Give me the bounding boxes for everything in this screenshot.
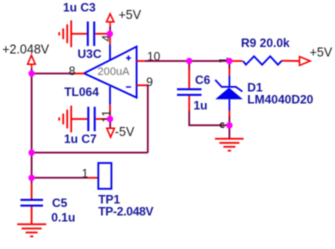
svg-text:1u: 1u bbox=[194, 98, 208, 112]
svg-text:LM4040D20: LM4040D20 bbox=[247, 93, 313, 107]
test point TP1 body bbox=[98, 163, 111, 189]
wire pin 11 to -5V junction bbox=[109, 105, 111, 119]
wire +5V junction down to op-amp pin 4 bbox=[109, 34, 111, 45]
capacitor C6 bbox=[177, 89, 202, 95]
svg-text:1u C7: 1u C7 bbox=[64, 132, 97, 146]
svg-text:-5V: -5V bbox=[115, 125, 135, 139]
power symbol +2.048V bbox=[28, 55, 36, 68]
op-amp pin 9 stub bbox=[137, 84, 148, 86]
wire stem +2.048V to junction bbox=[31, 68, 33, 73]
power port arrow +5V (right) bbox=[300, 57, 311, 66]
op-amp U3C triangle bbox=[84, 47, 137, 98]
capacitor C5 bbox=[20, 200, 43, 206]
capacitor C7 bbox=[88, 107, 94, 131]
test point TP1 pin stub bbox=[88, 177, 99, 179]
ground (sideways) for C7 bbox=[59, 106, 87, 133]
wire C7 to -5V junction bbox=[96, 118, 110, 120]
op-amp pin 11 stub bbox=[109, 87, 111, 105]
resistor R9 lead left bbox=[231, 60, 243, 62]
svg-text:8: 8 bbox=[69, 64, 76, 78]
svg-text:200uA: 200uA bbox=[98, 66, 131, 78]
wire feedback horizontal y=152.6 bbox=[32, 152, 148, 154]
wire D1 bottom to junction bbox=[228, 116, 230, 125]
diode D1 bottom pin bbox=[228, 111, 230, 117]
wire C6 branch down from junction bbox=[188, 61, 190, 70]
svg-text:1u C3: 1u C3 bbox=[63, 1, 96, 15]
svg-text:C6: C6 bbox=[195, 73, 211, 87]
wire left rail vertical bbox=[31, 74, 33, 184]
op-amp minus mark bbox=[126, 86, 131, 88]
junction dot D1 / C6 / ground bbox=[226, 122, 232, 128]
op-amp pin 10 stub bbox=[137, 60, 145, 62]
pin number 2 of D1 (circle mark) bbox=[220, 123, 224, 127]
diode D1 LM4040 (zener) bbox=[215, 75, 242, 110]
power symbol +5V (top) bbox=[107, 14, 114, 27]
svg-text:U3C: U3C bbox=[78, 47, 102, 61]
wire stem to ground (D1/C6) bbox=[228, 125, 230, 139]
junction dot +5V / C3 / pin4 bbox=[107, 31, 113, 37]
wire to TP1 y=177.8 bbox=[32, 177, 88, 179]
ground below D1/C6 bbox=[215, 139, 244, 151]
capacitor C3 bbox=[88, 22, 94, 47]
op-amp pin 8 stub bbox=[75, 73, 85, 75]
diode D1 top pin bbox=[228, 69, 230, 76]
junction dot output / C6 bbox=[186, 58, 192, 64]
junction dot feedback tap bbox=[28, 149, 34, 155]
ground below C5 bbox=[17, 224, 46, 236]
svg-text:R9 20.0k: R9 20.0k bbox=[241, 36, 290, 50]
wire D1 branch from top junction bbox=[228, 61, 230, 69]
svg-text:TL064: TL064 bbox=[64, 85, 99, 99]
svg-text:TP-2.048V: TP-2.048V bbox=[98, 205, 153, 219]
svg-text:0.1u: 0.1u bbox=[51, 210, 75, 224]
wire feedback vertical x=147.8 bbox=[147, 85, 149, 152]
wire C6 bottom corner bbox=[189, 111, 229, 125]
power symbol -5V triangle bbox=[107, 128, 115, 137]
svg-text:+5V: +5V bbox=[310, 45, 333, 59]
junction dot -5V / C7 / pin11 bbox=[107, 116, 113, 122]
wire net +2.048V horizontal to pin 8 bbox=[32, 73, 75, 75]
junction dot output / D1 / R9 bbox=[226, 58, 232, 64]
op-amp plus mark bbox=[126, 56, 131, 61]
svg-text:+5V: +5V bbox=[119, 8, 142, 22]
wire stem junction to -5V bbox=[109, 119, 111, 128]
svg-text:+2.048V: +2.048V bbox=[2, 42, 50, 56]
wire op-amp output top y=61 bbox=[144, 60, 230, 62]
svg-text:9: 9 bbox=[146, 75, 153, 89]
resistor R9 lead right bbox=[282, 60, 300, 62]
capacitor C6 bottom pin bbox=[188, 96, 190, 111]
svg-text:1: 1 bbox=[82, 167, 89, 181]
capacitor C5 bottom pin bbox=[31, 207, 33, 225]
wire stem +5V to junction bbox=[109, 27, 111, 34]
resistor R9 bbox=[243, 56, 282, 64]
junction dot TP tap bbox=[28, 175, 34, 181]
ground (sideways) for C3 bbox=[59, 20, 87, 47]
junction dot node +2.048V at pin8 wire bbox=[28, 70, 34, 76]
svg-text:C5: C5 bbox=[52, 196, 68, 210]
capacitor C5 top pin bbox=[31, 183, 33, 199]
wire C3 to +5V junction bbox=[95, 33, 110, 35]
op-amp U3C pin 4 stub bbox=[109, 44, 111, 60]
capacitor C6 top pin bbox=[188, 67, 190, 88]
